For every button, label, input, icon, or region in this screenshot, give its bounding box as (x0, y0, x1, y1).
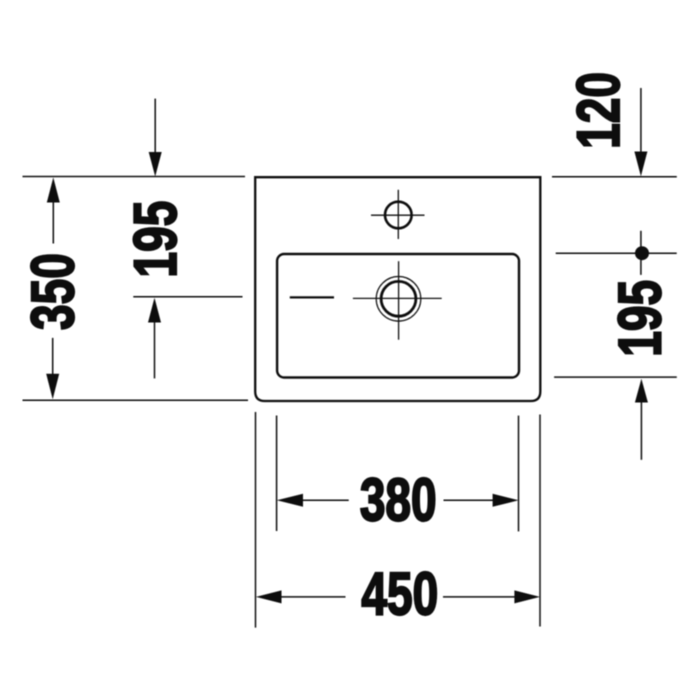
extension line bottom left (23, 399, 249, 401)
drain inner circle (381, 281, 416, 316)
svg-text:350: 350 (21, 253, 87, 330)
dim 380 line left (300, 499, 349, 501)
arrow 120 down (634, 152, 647, 177)
svg-text:450: 450 (361, 562, 438, 628)
dot extension line (556, 252, 677, 254)
arrow 350 up (47, 178, 60, 203)
svg-text:195: 195 (123, 201, 189, 278)
dim 120 tail (640, 88, 642, 152)
extension line top right (552, 176, 677, 178)
arrow 195 left up (148, 298, 161, 323)
dim 380 line right (444, 499, 496, 501)
arrow 380 right (493, 494, 519, 507)
faucet hole circle (385, 202, 412, 229)
mounting dot (635, 246, 649, 260)
svg-text:120: 120 (566, 72, 632, 149)
drain outer circle (376, 277, 421, 322)
faucet crosshair horizontal (371, 214, 425, 216)
arrow 450 right (514, 590, 540, 603)
arrow 350 down (46, 374, 59, 400)
dim 350 line upper (52, 199, 54, 244)
dot vertical line (640, 231, 642, 275)
dim 350 line lower (52, 338, 54, 374)
extension line 380 right (518, 416, 520, 532)
drain crosshair horizontal (353, 297, 442, 299)
dim 450 line left (280, 596, 346, 598)
extension line 450 left (255, 412, 257, 628)
basin inner bowl outline (277, 254, 519, 378)
extension line bottom right (554, 376, 677, 378)
svg-text:380: 380 (360, 468, 437, 534)
extension line 380 left (276, 416, 278, 532)
arrow 195 right up (635, 379, 648, 403)
dim 195 left tail top (154, 99, 156, 153)
drain crosshair vertical (398, 261, 400, 340)
dim 195 left tail bottom (154, 322, 156, 378)
dim 450 line right (443, 596, 516, 598)
overflow mark segment (290, 296, 334, 298)
svg-text:195: 195 (608, 280, 674, 357)
arrow 380 left (277, 494, 303, 507)
dim 195 right tail (640, 402, 642, 460)
dim 195 left extension (133, 296, 242, 298)
extension line 450 right (539, 415, 541, 627)
arrow 450 left (256, 590, 282, 603)
extension line top left (23, 176, 246, 178)
arrow 195 left down (149, 152, 162, 177)
faucet crosshair vertical (397, 190, 399, 239)
washbasin outer outline (255, 177, 540, 401)
